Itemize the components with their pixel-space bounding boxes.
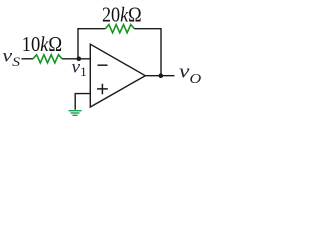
resistor R2 zigzag xyxy=(105,25,134,33)
wire from vS to R1 xyxy=(22,58,34,60)
wire op-amp output xyxy=(145,75,174,77)
wire feedback left vertical xyxy=(77,29,79,59)
wire top rail right xyxy=(134,28,161,30)
resistor R1 zigzag xyxy=(33,55,62,63)
svg-text:10kΩ: 10kΩ xyxy=(22,33,62,57)
svg-text:vO: vO xyxy=(179,60,201,86)
node v1 junction dot xyxy=(77,57,82,62)
wire feedback right vertical xyxy=(160,28,162,76)
wire plus input to ground xyxy=(75,94,91,110)
node vO junction dot xyxy=(159,73,164,78)
wire top rail left xyxy=(77,28,105,30)
op-amp plus sign xyxy=(97,84,108,95)
op-amp minus sign xyxy=(98,64,108,66)
ground symbol xyxy=(69,111,82,116)
svg-text:v1: v1 xyxy=(71,57,86,79)
wire from R1 to op-amp minus input xyxy=(62,58,91,60)
svg-text:20kΩ: 20kΩ xyxy=(102,3,142,27)
svg-text:vS: vS xyxy=(2,46,20,69)
op-amp U1 triangle xyxy=(90,44,145,107)
